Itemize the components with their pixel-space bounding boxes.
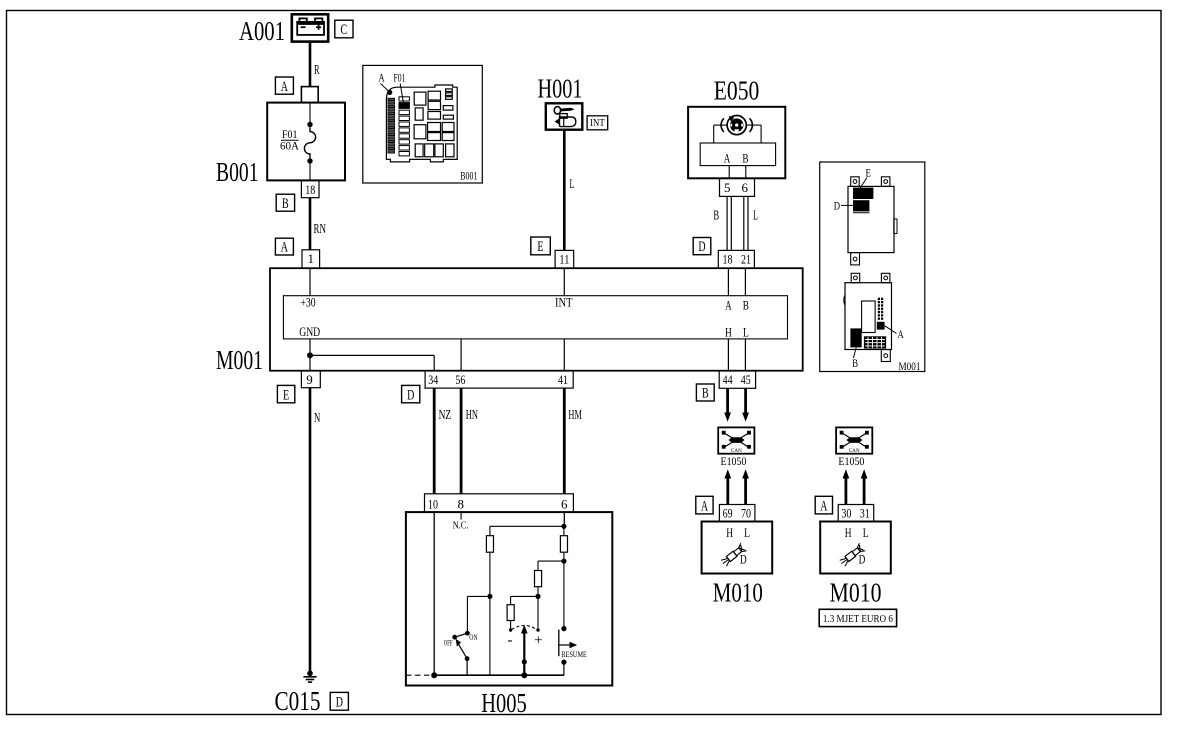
- svg-text:H: H: [845, 525, 852, 540]
- ECU M001 outer box: [216, 268, 803, 375]
- svg-text:INT: INT: [590, 118, 605, 129]
- svg-text:1: 1: [308, 251, 315, 266]
- svg-text:31: 31: [860, 506, 870, 521]
- wire N: pin 9 to ground: [310, 388, 320, 674]
- pin 5 6 box: [720, 178, 755, 196]
- pin 9 box: [301, 371, 320, 388]
- wire from R-left down to bus: [487, 552, 492, 675]
- pin 18 21 box: [718, 250, 754, 268]
- svg-text:A: A: [820, 498, 827, 514]
- H005 connector box pins 10 8 6: [425, 494, 574, 512]
- svg-text:E1050: E1050: [721, 456, 747, 468]
- svg-text:C015: C015: [275, 686, 321, 716]
- wire HN: M001 pin56 to H005 pin8: [461, 388, 478, 494]
- variant tag 1.3 MJET EURO 6: [819, 609, 896, 626]
- svg-text:H: H: [725, 325, 732, 340]
- wire NZ: M001 pin34 to H005 pin10: [434, 388, 451, 494]
- INT box: [587, 116, 608, 130]
- svg-text:F01: F01: [282, 129, 298, 141]
- wire pin11 to inner: [563, 268, 565, 296]
- svg-text:D: D: [834, 200, 840, 212]
- fuse panel outline: [386, 85, 457, 162]
- svg-text:L: L: [753, 209, 758, 224]
- leader F01: [400, 84, 403, 103]
- svg-text:D: D: [336, 695, 343, 711]
- rocker contacts and dashed arc: [509, 626, 540, 632]
- fuse panel inset B001: [363, 65, 483, 183]
- svg-text:N: N: [314, 411, 320, 426]
- svg-text:B: B: [743, 298, 749, 313]
- ref box B (pins 44/45): [696, 384, 714, 402]
- wire L: H001 to pin 11: [564, 130, 574, 251]
- svg-text:ON: ON: [469, 632, 477, 642]
- svg-text:60A: 60A: [280, 141, 300, 153]
- wire pin18 to inner: [727, 268, 729, 296]
- svg-text:N.C.: N.C.: [453, 521, 469, 532]
- twin wire L (pin6 to pin21): [744, 196, 758, 250]
- inset top module: [834, 167, 897, 265]
- svg-text:L: L: [570, 177, 575, 192]
- svg-text:M010: M010: [713, 578, 763, 608]
- svg-text:E: E: [283, 387, 289, 403]
- wire RN: [310, 198, 326, 250]
- inset bottom module: [844, 273, 905, 370]
- svg-text:+30: +30: [301, 295, 316, 310]
- svg-text:B: B: [282, 196, 289, 212]
- wire pin1 to inner: [309, 268, 311, 296]
- cruise control switch E050: [688, 76, 785, 179]
- svg-text:INT: INT: [555, 295, 573, 310]
- svg-text:21: 21: [741, 252, 751, 267]
- svg-text:B001: B001: [216, 157, 259, 187]
- svg-text:C: C: [341, 22, 348, 38]
- svg-text:L: L: [744, 525, 750, 540]
- ON/OFF switch: [444, 596, 490, 675]
- svg-text:B: B: [713, 209, 719, 224]
- svg-text:M001: M001: [216, 345, 263, 375]
- pin 8 stub N.C.: [453, 512, 469, 531]
- pin 6 wire into box: [490, 512, 567, 536]
- ref box E (pin 11 top): [531, 237, 551, 255]
- svg-text:6: 6: [561, 497, 568, 512]
- svg-text:6: 6: [742, 180, 749, 195]
- wire pin44 from inner: [727, 339, 729, 371]
- svg-text:M010: M010: [830, 578, 882, 608]
- svg-text:H005: H005: [481, 688, 527, 718]
- E050 sensor icon: [721, 116, 752, 135]
- svg-text:10: 10: [428, 497, 438, 512]
- junction dot pin10/bus: [431, 672, 437, 678]
- svg-text:18: 18: [305, 182, 315, 197]
- svg-text:A001: A001: [239, 16, 285, 46]
- M001 connector views inset: [820, 162, 925, 373]
- svg-text:+: +: [534, 633, 542, 649]
- ref box A (top): [275, 77, 293, 95]
- svg-text:CAN: CAN: [731, 448, 742, 454]
- svg-text:CAN: CAN: [849, 448, 860, 454]
- svg-text:R: R: [314, 63, 320, 78]
- fuse panel large slots: [414, 89, 454, 157]
- svg-text:56: 56: [455, 372, 465, 387]
- pin 10 wire down to bus: [433, 512, 435, 675]
- svg-text:-: -: [508, 633, 513, 649]
- pin 30 31 box: [838, 505, 874, 522]
- ground C015: [275, 671, 321, 717]
- svg-text:44: 44: [723, 372, 733, 387]
- ECU M010 (left): [702, 522, 773, 608]
- svg-text:1.3 MJET EURO 6: 1.3 MJET EURO 6: [823, 613, 893, 625]
- ref box C: [335, 20, 353, 38]
- wire R: battery to fuse: [310, 42, 320, 87]
- svg-text:A: A: [724, 150, 731, 165]
- resistor R-mid: [535, 571, 542, 600]
- pin 69 70 box: [719, 505, 755, 522]
- svg-text:E1050: E1050: [838, 456, 864, 468]
- fuse box B001: [216, 103, 345, 187]
- wire pin41 from inner: [563, 339, 565, 371]
- wire HM: M001 pin41 to H005 pin6: [564, 388, 582, 494]
- bottom bus wire: [434, 674, 564, 676]
- E050 internal wiring: [714, 125, 761, 143]
- svg-text:A: A: [725, 298, 732, 313]
- svg-text:OFF: OFF: [444, 637, 453, 647]
- rocker lever arrow: [521, 625, 528, 679]
- svg-text:A: A: [378, 73, 385, 85]
- svg-text:E: E: [537, 239, 543, 255]
- svg-text:8: 8: [458, 497, 465, 512]
- svg-text:D: D: [740, 552, 747, 567]
- dashed stub at left: [406, 674, 431, 676]
- svg-text:A: A: [701, 498, 708, 514]
- CAN arrows down from pins 44/45: [724, 388, 749, 421]
- resistor R-rocker: [507, 605, 514, 629]
- svg-text:M001: M001: [899, 361, 921, 373]
- twin wire B (pin5 to pin18): [713, 196, 731, 250]
- wire pin45 from inner: [744, 339, 746, 371]
- svg-text:RESUME: RESUME: [562, 649, 587, 659]
- E050 inner box: [700, 143, 775, 166]
- fuse column 2 with F01 black: [399, 97, 409, 156]
- ref box D (pin 18/21 top): [693, 238, 711, 256]
- pin 11 box: [555, 250, 574, 268]
- svg-text:D: D: [859, 552, 866, 567]
- CAN node box E1050 (right): [836, 427, 872, 467]
- wire pin21 to inner: [744, 268, 746, 296]
- svg-text:34: 34: [428, 372, 438, 387]
- rocker right leg: [537, 596, 539, 628]
- ref box D (pins 34/56): [402, 385, 420, 403]
- ref box D (C015): [330, 692, 348, 710]
- svg-text:B001: B001: [460, 171, 477, 183]
- arrows up into CAN (right): [843, 469, 868, 504]
- wire pin56 from inner: [460, 339, 462, 371]
- svg-text:L: L: [863, 525, 869, 540]
- svg-text:L: L: [743, 325, 749, 340]
- branch to middle resistor: [538, 561, 564, 570]
- svg-text:18: 18: [723, 252, 733, 267]
- svg-text:41: 41: [558, 372, 568, 387]
- arrows up into CAN (left): [724, 469, 749, 504]
- ref box B: [276, 194, 294, 212]
- diagnostic plug icon (right M010): [838, 543, 865, 567]
- svg-text:A: A: [281, 79, 288, 95]
- ref box A (above M001 pin 1): [275, 238, 293, 255]
- svg-text:70: 70: [741, 506, 751, 521]
- svg-text:B: B: [852, 358, 858, 370]
- resistor R-right (pin6 line): [560, 526, 567, 628]
- pin 18 box: [301, 181, 319, 198]
- wire GND to pin 9 with junction: [307, 339, 434, 371]
- ignition switch H001: [538, 74, 583, 130]
- RESUME switch: [559, 626, 587, 675]
- branch to rocker left: [511, 596, 538, 604]
- key icon: [554, 107, 576, 127]
- fuse column 1: [388, 98, 395, 153]
- svg-text:B: B: [742, 150, 748, 165]
- battery A001: [239, 14, 328, 46]
- resistor R-left (under pin6 branch): [486, 536, 493, 553]
- connector square on B001: [301, 87, 318, 103]
- svg-text:11: 11: [559, 252, 569, 267]
- ref box A (pins 30/31): [815, 496, 832, 514]
- E050 pins to connector: [729, 166, 746, 179]
- pin 1 box: [302, 250, 320, 268]
- svg-text:HM: HM: [568, 408, 582, 423]
- svg-text:F01: F01: [394, 73, 406, 85]
- CAN node box E1050 (left): [718, 427, 754, 467]
- ref box A (pins 69/70): [696, 496, 713, 514]
- pin 34 56 41 box: [425, 371, 573, 388]
- pin 44 45 box: [719, 371, 755, 388]
- svg-text:A: A: [898, 329, 905, 341]
- svg-text:A: A: [281, 240, 288, 256]
- svg-text:HN: HN: [466, 408, 478, 423]
- svg-text:B: B: [702, 386, 709, 402]
- svg-text:9: 9: [306, 372, 313, 387]
- svg-text:H001: H001: [538, 74, 583, 104]
- svg-text:H: H: [726, 525, 733, 540]
- ref box E (pin 9): [277, 385, 294, 403]
- svg-text:D: D: [698, 239, 705, 255]
- svg-text:30: 30: [841, 506, 851, 521]
- fuse F01 60A symbol: [280, 103, 316, 181]
- svg-text:D: D: [407, 387, 414, 403]
- leader A: [381, 84, 389, 91]
- svg-text:69: 69: [723, 506, 733, 521]
- svg-text:GND: GND: [299, 324, 320, 339]
- ECU M010 (right): [820, 522, 891, 608]
- svg-text:RN: RN: [314, 222, 327, 237]
- svg-text:NZ: NZ: [439, 408, 452, 423]
- switch unit H005 box: [406, 512, 612, 718]
- svg-text:45: 45: [741, 372, 751, 387]
- svg-text:E050: E050: [714, 76, 760, 106]
- svg-text:5: 5: [724, 180, 731, 195]
- M001 inner box: [283, 296, 787, 339]
- diagnostic plug icon (left M010): [720, 543, 747, 567]
